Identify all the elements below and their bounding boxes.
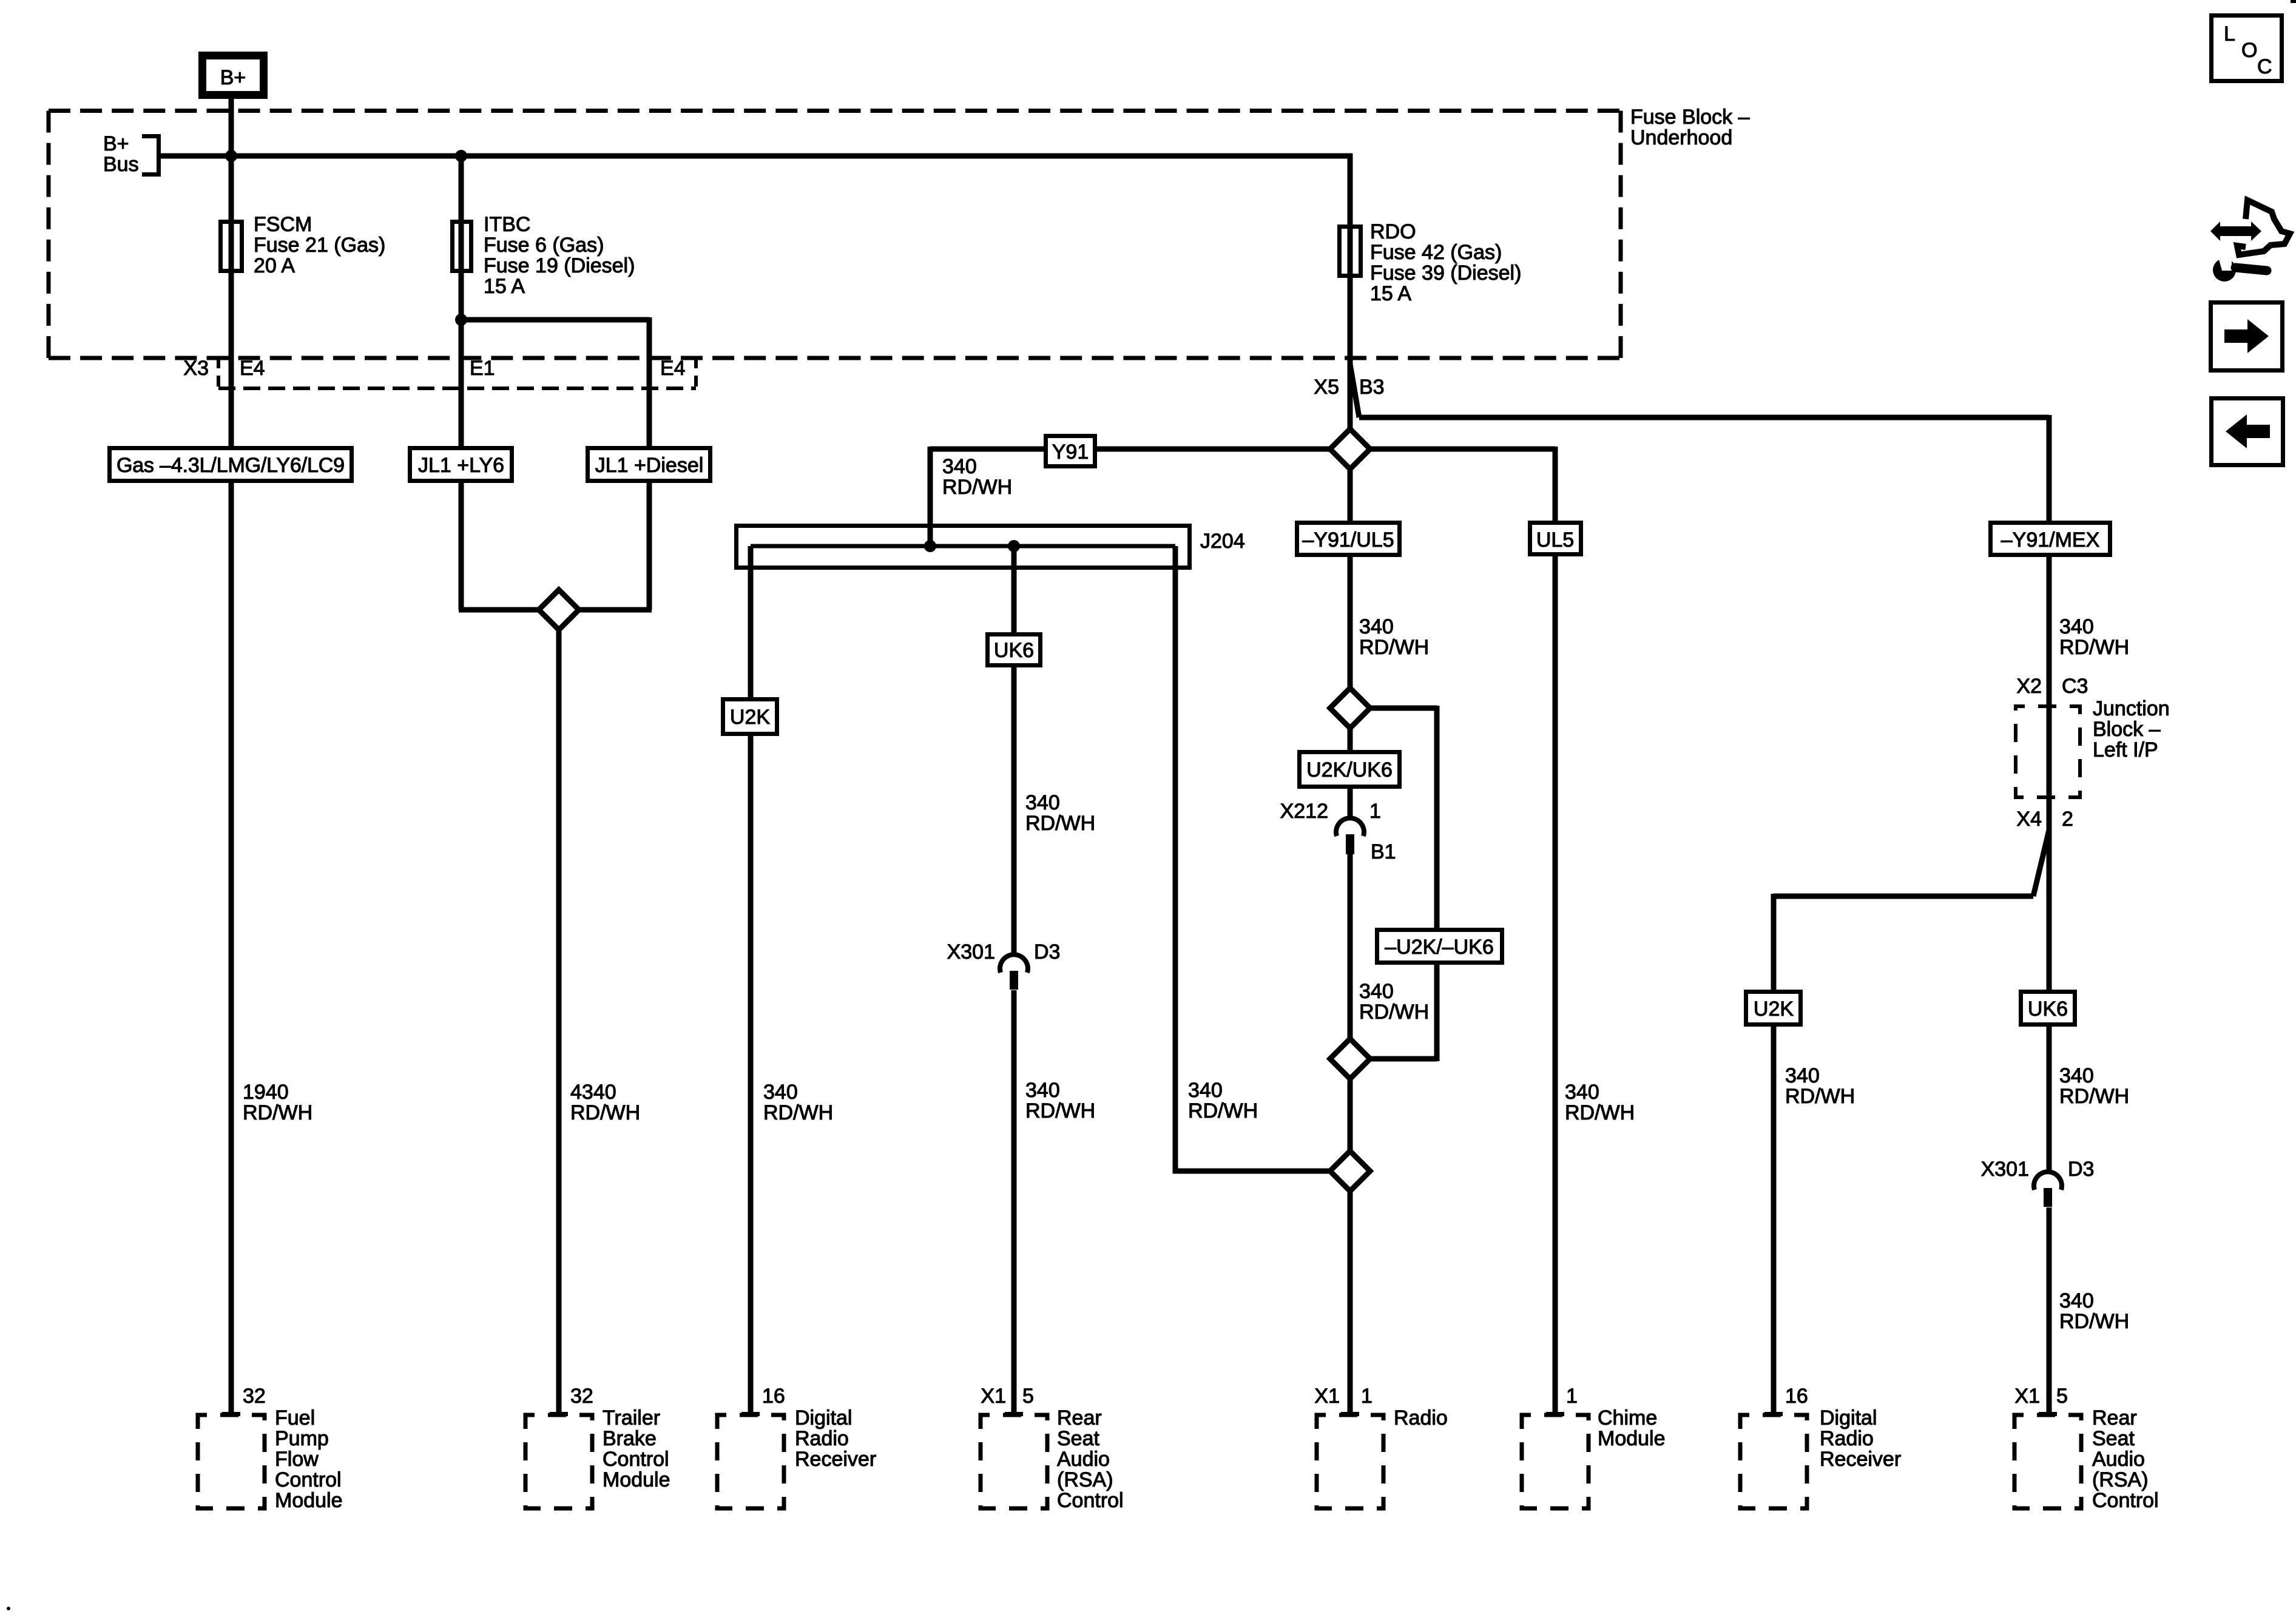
junction diamond: third (U2K/UK6 merge) (1330, 1039, 1370, 1079)
svg-text:JL1 +Diesel: JL1 +Diesel (595, 454, 704, 477)
svg-text:340: 340 (942, 455, 977, 478)
wire: left U2K column to Digital Radio Receiver (748, 734, 754, 1414)
svg-text:Radio: Radio (1394, 1406, 1448, 1430)
svg-text:Trailer: Trailer (603, 1406, 660, 1430)
svg-text:Left I/P: Left I/P (2093, 738, 2158, 761)
svg-text:Control: Control (603, 1448, 669, 1471)
svg-text:Receiver: Receiver (795, 1448, 876, 1471)
node: bus junction at FSCM column (225, 150, 237, 162)
svg-text:RD/WH: RD/WH (2059, 1310, 2129, 1333)
wire: FSCM column vertical (B+ to Fuel Pump Flow Control Module) (229, 97, 234, 1414)
svg-text:B+: B+ (103, 132, 129, 155)
svg-text:(RSA): (RSA) (2092, 1468, 2149, 1491)
svg-text:Module: Module (603, 1468, 670, 1491)
mark: top right corner artifact (2291, 0, 2296, 3)
component box: Trailer Brake Control Module (525, 1385, 670, 1508)
wire: JL1 +LY6 horizontal into diamond (459, 607, 559, 613)
svg-text:X4: X4 (2016, 808, 2042, 831)
connector X301 D3 (left) (947, 940, 1061, 990)
svg-text:D3: D3 (1034, 940, 1060, 964)
svg-text:340: 340 (2059, 1064, 2094, 1087)
svg-text:20 A: 20 A (254, 254, 295, 277)
label box: Y91 (1046, 436, 1095, 467)
svg-text:Control: Control (275, 1468, 342, 1491)
wire: right U2K branch horizontal (1774, 894, 2033, 899)
svg-text:Control: Control (2092, 1489, 2159, 1512)
fuse ITBC Fuse 6 (Gas) / Fuse 19 (Diesel) 15 A (453, 222, 471, 271)
svg-text:–U2K/–UK6: –U2K/–UK6 (1385, 936, 1494, 959)
wire: J204 left drop to U2K (748, 546, 754, 700)
wire: ITBC column vertical (459, 156, 464, 610)
fuse RDO Fuse 42 (Gas) / Fuse 39 (Diesel) 15 A (1340, 227, 1361, 276)
svg-text:B3: B3 (1359, 376, 1385, 399)
wire: J204 right drop vertical (1173, 546, 1178, 1173)
svg-text:UK6: UK6 (2028, 998, 2068, 1021)
svg-text:C3: C3 (2062, 675, 2088, 698)
label box: Gas -4.3L/LMG/LY6/LC9 (110, 448, 352, 481)
node: ITBC diesel branch junction (455, 314, 467, 326)
label box: U2K/UK6 (1300, 752, 1400, 787)
wire: second diamond right branch horizontal (1350, 706, 1437, 711)
LOC legend box (2212, 16, 2282, 81)
svg-text:RD/WH: RD/WH (1359, 636, 1429, 659)
connector X212 pin 1 / B1 (1280, 800, 1396, 863)
svg-text:Digital: Digital (1820, 1406, 1877, 1430)
fuse block underhood dashed outline (49, 111, 1621, 359)
svg-text:Audio: Audio (1057, 1448, 1110, 1471)
svg-text:Radio: Radio (1820, 1427, 1874, 1450)
svg-text:ITBC: ITBC (484, 213, 530, 236)
svg-text:RD/WH: RD/WH (763, 1101, 833, 1124)
svg-text:FSCM: FSCM (254, 213, 312, 236)
wire: J204 mid drop to UK6 (1011, 546, 1017, 635)
splice pack J204 outer shell (737, 526, 1190, 568)
svg-text:1: 1 (1361, 1385, 1373, 1408)
wire: U2K/UK6 box to X212 connector (1348, 786, 1353, 820)
svg-text:Flow: Flow (275, 1448, 319, 1471)
svg-text:–Y91/MEX: –Y91/MEX (2001, 528, 2100, 552)
svg-text:(RSA): (RSA) (1057, 1468, 1113, 1491)
svg-text:15 A: 15 A (1370, 282, 1411, 305)
svg-text:Module: Module (1598, 1427, 1666, 1450)
svg-text:RD/WH: RD/WH (942, 476, 1012, 499)
wire: right X301 to Rear Seat Audio (2047, 1207, 2052, 1414)
wire: -Y91/MEX drop vertical (2047, 415, 2052, 523)
svg-text:X301: X301 (1981, 1158, 2029, 1181)
svg-text:X1: X1 (2014, 1385, 2040, 1408)
wire: X212 to radio through diamonds (1348, 854, 1353, 1414)
svg-text:340: 340 (763, 1081, 798, 1104)
wire: RDO main vertical through first diamond (1348, 363, 1353, 523)
svg-text:1940: 1940 (243, 1081, 289, 1104)
icon: forward arrow box (2211, 303, 2283, 371)
svg-text:Fuse 42 (Gas): Fuse 42 (Gas) (1370, 241, 1502, 264)
svg-text:4340: 4340 (570, 1081, 616, 1104)
svg-text:16: 16 (762, 1385, 785, 1408)
svg-text:D3: D3 (2068, 1158, 2094, 1181)
svg-text:E1: E1 (470, 357, 495, 380)
wire: trailer brake column vertical (556, 610, 562, 1414)
wire: -U2K/-UK6 bypass vertical (1434, 706, 1440, 1061)
label box: JL1 +LY6 (410, 448, 512, 481)
component box: Digital Radio Receiver (right) (1740, 1385, 1901, 1508)
svg-text:RD/WH: RD/WH (1785, 1085, 1855, 1108)
svg-text:U2K/UK6: U2K/UK6 (1306, 758, 1393, 781)
svg-text:U2K: U2K (730, 706, 770, 729)
svg-text:X212: X212 (1280, 800, 1328, 823)
svg-text:Junction: Junction (2093, 697, 2170, 720)
wire: right UK6 column to X301 (2047, 1024, 2052, 1174)
splice pack J204 bus bar (751, 544, 1175, 549)
svg-text:RDO: RDO (1370, 220, 1416, 243)
svg-text:RD/WH: RD/WH (1359, 1001, 1429, 1024)
svg-text:X2: X2 (2016, 675, 2042, 698)
svg-text:B+: B+ (220, 66, 246, 89)
svg-text:2: 2 (2062, 808, 2073, 831)
svg-text:X3: X3 (183, 357, 209, 380)
svg-text:Brake: Brake (603, 1427, 657, 1450)
svg-text:Module: Module (275, 1489, 343, 1512)
svg-text:Audio: Audio (2092, 1448, 2145, 1471)
svg-text:RD/WH: RD/WH (1565, 1101, 1635, 1124)
svg-text:J204: J204 (1200, 530, 1245, 553)
svg-text:340: 340 (1188, 1079, 1223, 1102)
node: bus junction at ITBC column (455, 150, 467, 162)
svg-text:UK6: UK6 (994, 639, 1034, 662)
svg-text:X301: X301 (947, 940, 995, 964)
component box: Fuel Pump Flow Control Module (198, 1385, 343, 1512)
icon: back arrow box (2212, 399, 2283, 465)
svg-text:O: O (2241, 39, 2257, 62)
svg-text:Underhood: Underhood (1630, 126, 1732, 149)
svg-text:U2K: U2K (1754, 998, 1794, 1021)
svg-text:Radio: Radio (795, 1427, 849, 1450)
connector pass-through band X3/E4/E1/E4 (218, 387, 696, 390)
svg-text:RD/WH: RD/WH (2059, 1085, 2129, 1108)
label box: UK6 (left column) (988, 635, 1041, 666)
svg-text:Digital: Digital (795, 1406, 852, 1430)
component box: Rear Seat Audio (RSA) Control (left) (981, 1385, 1124, 1512)
wire: RDO column vertical from bus (1348, 154, 1353, 364)
svg-text:Seat: Seat (1057, 1427, 1099, 1450)
svg-text:UL5: UL5 (1536, 528, 1574, 552)
junction diamond: RDO feed split (first) (1330, 429, 1370, 469)
node: J204 tap UK6 drop (1008, 540, 1020, 552)
svg-text:340: 340 (2059, 615, 2094, 638)
svg-text:32: 32 (570, 1385, 593, 1408)
svg-text:X1: X1 (981, 1385, 1006, 1408)
svg-text:Bus: Bus (103, 153, 139, 176)
wire: left UK6 column to X301 (1011, 663, 1017, 956)
svg-text:Fuse Block –: Fuse Block – (1630, 106, 1750, 129)
wire: right U2K drop to box (1771, 894, 1777, 992)
svg-text:340: 340 (1025, 1079, 1060, 1102)
label box: UL5 (1530, 523, 1581, 555)
wire: UL5 chime column vertical (1553, 447, 1558, 1414)
svg-text:E4: E4 (660, 357, 686, 380)
svg-text:RD/WH: RD/WH (243, 1101, 312, 1124)
icon: double arrow with wrench (service info) (2210, 200, 2290, 282)
svg-text:RD/WH: RD/WH (570, 1101, 640, 1124)
label box: JL1 +Diesel (588, 448, 711, 481)
svg-text:Chime: Chime (1598, 1406, 1657, 1430)
svg-text:RD/WH: RD/WH (1025, 1099, 1095, 1122)
svg-text:Receiver: Receiver (1820, 1448, 1901, 1471)
label box: -Y91/UL5 (1297, 523, 1400, 555)
svg-text:RD/WH: RD/WH (2059, 636, 2129, 659)
wire: Y91 drop to J204 (928, 447, 933, 546)
svg-text:Seat: Seat (2092, 1427, 2135, 1450)
wire: right U2K column to Digital Radio Receiver (1771, 1024, 1777, 1414)
B+ Bus bracket (142, 137, 159, 175)
wire: radio column -Y91/UL5 to U2K/UK6 (1348, 555, 1353, 752)
svg-text:X1: X1 (1314, 1385, 1340, 1408)
svg-text:Rear: Rear (2092, 1406, 2137, 1430)
svg-text:Control: Control (1057, 1489, 1124, 1512)
svg-text:Gas –4.3L/LMG/LY6/LC9: Gas –4.3L/LMG/LY6/LC9 (116, 454, 345, 477)
svg-text:16: 16 (1785, 1385, 1808, 1408)
junction diamond: fourth (J204 merge) (1330, 1151, 1370, 1191)
wire: JL1 +Diesel horizontal into diamond (559, 607, 652, 613)
label box: UK6 (right column) (2021, 992, 2075, 1025)
svg-text:1: 1 (1566, 1385, 1578, 1408)
svg-text:C: C (2257, 55, 2272, 78)
svg-text:Rear: Rear (1057, 1406, 1102, 1430)
svg-text:5: 5 (2056, 1385, 2068, 1408)
svg-text:340: 340 (1359, 615, 1394, 638)
svg-text:15 A: 15 A (484, 275, 525, 298)
label box: -Y91/MEX (1991, 523, 2110, 555)
svg-text:B1: B1 (1371, 840, 1396, 863)
fuse FSCM Fuse 21 (Gas) 20 A (221, 222, 242, 271)
wire: left X301 to Rear Seat Audio (1011, 990, 1017, 1414)
label box: U2K (left column) (723, 700, 777, 734)
component box: Radio (1314, 1385, 1447, 1508)
B+ power symbol box (203, 56, 264, 95)
wire: Y91 branch horizontal (930, 447, 1555, 452)
svg-text:Block –: Block – (2093, 718, 2161, 741)
mark: bottom left dot (7, 1607, 10, 1610)
svg-text:32: 32 (243, 1385, 266, 1408)
wire: RDO jog diagonal below X5 B3 (1350, 364, 1359, 417)
label box: -U2K/-UK6 (1377, 930, 1502, 963)
junction diamond: JL1 merge (539, 590, 579, 630)
node: J204 tap from Y91 (924, 540, 936, 552)
wire: JL1 +Diesel vertical (647, 317, 652, 610)
svg-text:340: 340 (1565, 1081, 1599, 1104)
svg-text:–Y91/UL5: –Y91/UL5 (1302, 528, 1394, 552)
component box: Chime Module (1522, 1385, 1666, 1508)
connector X301 D3 (right) (1981, 1158, 2095, 1207)
wire: top right feed horizontal to -Y91/MEX (1359, 415, 2049, 420)
wire: third diamond right branch horizontal (1350, 1056, 1437, 1062)
svg-text:340: 340 (1359, 980, 1394, 1003)
svg-text:Fuse 39 (Diesel): Fuse 39 (Diesel) (1370, 262, 1521, 285)
wire: junction block column vertical (2047, 555, 2052, 992)
label box: U2K (right column) (1746, 992, 1801, 1025)
svg-text:L: L (2224, 22, 2235, 46)
svg-text:X5: X5 (1314, 376, 1339, 399)
wire: ITBC diesel branch horizontal (461, 317, 649, 323)
junction block left I/P dashed box (2016, 675, 2170, 831)
svg-text:Fuse 21 (Gas): Fuse 21 (Gas) (254, 234, 385, 257)
junction diamond: second (U2K/UK6 split) (1330, 688, 1370, 728)
wire: fourth diamond left branch horizontal (1173, 1169, 1350, 1174)
svg-text:340: 340 (1785, 1064, 1820, 1087)
svg-text:Fuse 19 (Diesel): Fuse 19 (Diesel) (484, 254, 635, 277)
wire: X4 pin 2 diagonal branch (2033, 830, 2049, 896)
svg-text:Pump: Pump (275, 1427, 329, 1450)
svg-text:RD/WH: RD/WH (1188, 1099, 1258, 1122)
svg-text:Fuel: Fuel (275, 1406, 315, 1430)
svg-text:340: 340 (2059, 1289, 2094, 1312)
svg-text:Y91: Y91 (1052, 441, 1089, 464)
component box: Digital Radio Receiver (left) (717, 1385, 876, 1508)
svg-text:1: 1 (1369, 800, 1381, 823)
svg-text:JL1 +LY6: JL1 +LY6 (418, 454, 504, 477)
wire: B+ bus horizontal (159, 154, 1352, 159)
svg-text:Fuse 6 (Gas): Fuse 6 (Gas) (484, 234, 604, 257)
svg-text:5: 5 (1022, 1385, 1034, 1408)
svg-text:340: 340 (1025, 791, 1060, 814)
svg-text:RD/WH: RD/WH (1025, 812, 1095, 835)
svg-text:E4: E4 (240, 357, 265, 380)
component box: Rear Seat Audio (RSA) Control (right) (2014, 1385, 2159, 1512)
